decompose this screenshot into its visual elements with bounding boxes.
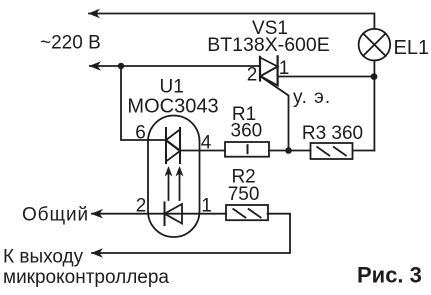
resistor R3 bbox=[311, 143, 353, 159]
wire: R3 right to EL1 vertical bbox=[353, 150, 375, 152]
LED in U1 bbox=[165, 203, 183, 226]
junction node: EL1 / VS1 pin1 bbox=[371, 73, 378, 80]
wire: R2 right down to microcontroller line bbox=[92, 214, 290, 253]
svg-text:К выходу: К выходу bbox=[3, 247, 84, 268]
arrow: microcontroller left arrowhead bbox=[91, 248, 103, 258]
wire: Obshchiy (common) to U1 pin2 / LED / R2 bbox=[92, 213, 226, 215]
svg-text:Рис. 3: Рис. 3 bbox=[357, 263, 422, 288]
wire: mains neutral line to VS1 pin2 bbox=[90, 65, 260, 67]
wire: VS1 gate bbox=[261, 77, 289, 151]
wire: EL1 bottom down to R3 level bbox=[373, 61, 375, 151]
wire: top mains line from left arrow to EL1 top bbox=[89, 14, 374, 29]
lamp EL1 bbox=[359, 29, 391, 61]
svg-text:1: 1 bbox=[279, 58, 290, 79]
svg-text:микроконтроллера: микроконтроллера bbox=[3, 267, 169, 288]
svg-text:2: 2 bbox=[247, 65, 258, 86]
svg-text:Общий: Общий bbox=[22, 205, 89, 226]
arrow: top mains left arrowhead bbox=[88, 9, 100, 19]
svg-text:MOC3043: MOC3043 bbox=[127, 96, 218, 118]
svg-text:BT138X-600E: BT138X-600E bbox=[207, 34, 330, 56]
resistor R1 bbox=[225, 142, 269, 157]
arrow: neutral left arrowhead bbox=[89, 61, 101, 71]
svg-text:R3 360: R3 360 bbox=[302, 123, 363, 144]
wire: R1 to R3 bbox=[269, 150, 311, 152]
svg-text:360: 360 bbox=[231, 121, 263, 142]
svg-text:750: 750 bbox=[228, 184, 260, 205]
junction node: gate / R1 / R3 bbox=[285, 147, 292, 154]
triac VS1 bbox=[260, 56, 278, 85]
resistor R2 bbox=[226, 205, 268, 220]
optocoupler U1 body bbox=[148, 116, 200, 238]
wire: U1 pin4 to R1 bbox=[180, 150, 225, 152]
wire: VS1 pin1 to EL1 junction bbox=[278, 76, 375, 78]
phototriac in U1 bbox=[166, 128, 180, 163]
svg-text:6: 6 bbox=[135, 123, 146, 144]
wire: branch down to U1 pin 6 bbox=[121, 66, 166, 140]
svg-text:у. э.: у. э. bbox=[293, 87, 331, 108]
svg-text:U1: U1 bbox=[160, 77, 184, 98]
svg-text:~220 В: ~220 В bbox=[40, 33, 101, 54]
arrow: common left arrowhead bbox=[91, 209, 103, 219]
light arrows from LED to phototriac bbox=[165, 166, 184, 200]
svg-text:EL1: EL1 bbox=[394, 37, 430, 59]
junction node: branch to U1 pin6 bbox=[118, 63, 124, 69]
